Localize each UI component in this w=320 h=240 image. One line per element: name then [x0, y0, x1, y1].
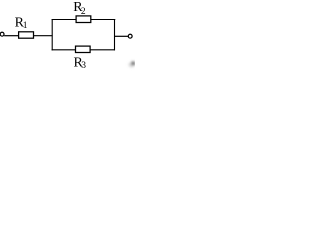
wire: left vertical of parallel loop: [51, 19, 53, 50]
wire: R1 to left junction: [34, 35, 53, 37]
wire: left terminal to R1: [4, 35, 18, 37]
svg-text:2: 2: [81, 7, 86, 17]
wire: top branch right: [91, 19, 116, 21]
resistor R1: [19, 32, 34, 38]
smudge artifact bottom-right: [127, 60, 136, 68]
resistor R2: [76, 16, 91, 23]
label R1: [15, 16, 28, 31]
wire: bottom branch left: [52, 49, 76, 51]
svg-text:3: 3: [81, 61, 86, 71]
label R2: [73, 0, 86, 17]
right terminal: [128, 34, 132, 38]
left terminal: [0, 32, 4, 36]
wire: right junction to right terminal: [115, 35, 128, 37]
svg-text:1: 1: [23, 21, 28, 31]
resistor R3: [76, 46, 91, 52]
wire: top branch left: [52, 19, 77, 21]
wire: bottom branch right: [90, 49, 115, 51]
label R3: [74, 56, 87, 71]
wire: right vertical of parallel loop: [114, 19, 116, 50]
